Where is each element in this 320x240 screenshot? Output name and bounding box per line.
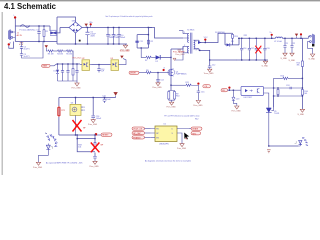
aux rail <box>57 63 81 65</box>
power port opto out arrow <box>120 56 123 59</box>
svg-text:TL431: TL431 <box>274 113 279 115</box>
transformer T1 <box>179 29 199 53</box>
cap lower <box>93 157 97 159</box>
svg-text:F1 slow 2A/250Vac: F1 slow 2A/250Vac <box>20 28 36 31</box>
svg-text:VOUT_OK: VOUT_OK <box>133 129 143 131</box>
svg-text:Prim_VCC: Prim_VCC <box>73 57 83 60</box>
wire DC- rail <box>57 43 127 45</box>
resistor snubber <box>147 40 149 44</box>
svg-text:10k: 10k <box>78 147 81 149</box>
svg-text:Trans_GND: Trans_GND <box>204 72 215 75</box>
svg-text:R8: R8 <box>146 70 148 72</box>
svg-text:BP_CAP: BP_CAP <box>133 132 141 135</box>
zener fb <box>232 90 239 106</box>
svg-text:RESET: RESET <box>102 135 109 137</box>
svg-text:Note: Y1 cap between pins 1-3: Note: Y1 cap between pins 1-3 should to … <box>106 15 153 18</box>
svg-text:S_GND: S_GND <box>281 58 288 60</box>
svg-text:Prim_GND: Prim_GND <box>88 123 98 126</box>
svg-text:450V: 450V <box>90 35 95 37</box>
red oval net label aux <box>42 64 57 68</box>
svg-text:Prim_GND: Prim_GND <box>33 166 43 169</box>
bridge rectifier DB1 <box>69 20 82 33</box>
svg-text:2: 2 <box>84 110 85 112</box>
resistor fb <box>283 77 288 79</box>
ground sense <box>167 102 177 108</box>
capacitor snubber <box>135 41 138 42</box>
opto U4 <box>241 86 264 98</box>
svg-text:R2: R2 <box>151 41 153 43</box>
capacitor mid opto <box>97 64 105 73</box>
wire secondary bottom <box>194 49 210 66</box>
ground sec snubber <box>208 69 212 72</box>
capacitor C10 <box>117 28 126 45</box>
ground Prim_GND below bulk <box>121 44 131 52</box>
bottom rail supervisor <box>59 134 96 136</box>
red oval pin2 <box>132 132 151 136</box>
svg-text:C12: C12 <box>212 64 215 66</box>
supervisor loop top <box>59 98 116 136</box>
red oval net label gate drive <box>129 71 139 75</box>
resistor R4 <box>58 50 63 52</box>
svg-text:BIAS: BIAS <box>43 65 48 68</box>
wire CS branch <box>171 84 186 86</box>
power port supervisor <box>115 96 117 98</box>
svg-text:Trans_GND: Trans_GND <box>120 49 131 52</box>
post filter caps <box>283 38 295 53</box>
common mode choke L1 <box>50 26 60 36</box>
svg-text:C23: C23 <box>236 99 239 101</box>
ground IC <box>177 144 187 151</box>
MOSFET Q1 <box>168 68 187 77</box>
svg-text:D2: D2 <box>156 61 158 63</box>
svg-text:Prim_GND: Prim_GND <box>167 105 177 108</box>
svg-text:Prim_GND: Prim_GND <box>72 87 82 90</box>
wire startup to aux rail <box>72 51 73 64</box>
ground J2 <box>309 54 316 60</box>
svg-text:As expected SMPS PWM TP is 280: As expected SMPS PWM TP is 280kHz - 30% <box>46 161 83 164</box>
svg-text:SRC: SRC <box>192 133 197 135</box>
svg-text:R5 1M: R5 1M <box>66 54 72 56</box>
cap supervisor mid <box>91 97 102 120</box>
primary winding lower <box>188 46 189 53</box>
wire secondary top <box>199 33 225 42</box>
lower loop <box>77 135 95 156</box>
wire bridge bottom <box>60 28 76 45</box>
port source <box>186 137 188 139</box>
output cap bank <box>240 38 270 60</box>
svg-text:Prim_GND: Prim_GND <box>90 165 100 168</box>
svg-text:Prim_GND: Prim_GND <box>176 53 186 56</box>
svg-text:Prim_GND: Prim_GND <box>177 147 187 150</box>
left page border line <box>1 12 4 175</box>
power port startup arrow <box>45 45 48 48</box>
wire <box>151 56 155 58</box>
resistor R7 <box>146 56 151 58</box>
ground fb <box>232 106 242 113</box>
connector J1 <box>9 30 16 41</box>
opto U4 right pins <box>264 88 303 107</box>
svg-text:As diagnostic schematic view l: As diagnostic schematic view leave the i… <box>145 159 191 162</box>
ground CS <box>193 100 203 106</box>
resistor R5 <box>67 50 72 52</box>
svg-text:ENABLE: ENABLE <box>133 136 141 139</box>
red oval net label CS <box>203 85 211 89</box>
ground output <box>262 60 269 68</box>
wire fb chain <box>228 89 241 91</box>
IC left pin wires <box>151 129 155 138</box>
svg-text:C24: C24 <box>286 85 289 87</box>
red X U6 <box>73 120 82 132</box>
output rail <box>238 37 309 39</box>
red oval source <box>191 132 201 136</box>
svg-text:C14: C14 <box>160 79 163 81</box>
wire bottom input rail <box>15 41 57 43</box>
junction dots DC rails <box>87 27 88 28</box>
svg-text:U4 PC817: U4 PC817 <box>244 97 253 99</box>
svg-text:Prim_CLAMP: Prim_CLAMP <box>173 50 185 53</box>
capacitor C7 <box>106 28 115 45</box>
ground divider <box>298 109 305 116</box>
resistor R CS <box>186 84 191 86</box>
svg-text:S_GND: S_GND <box>309 58 316 60</box>
svg-text:2n2/Y1: 2n2/Y1 <box>24 56 30 58</box>
core <box>191 33 192 54</box>
snubber clamp loop <box>137 27 149 49</box>
svg-text:2n2/Y1: 2n2/Y1 <box>24 48 30 50</box>
resistor DNP vertical <box>94 143 96 149</box>
wire connector drop <box>14 26 16 42</box>
Y-caps chain <box>20 42 43 59</box>
svg-text:100nF: 100nF <box>96 118 102 120</box>
svg-text:C16: C16 <box>243 48 246 50</box>
red oval net label lower <box>97 133 112 137</box>
inductor L2 on rail <box>274 37 282 43</box>
svg-text:L2 3.3uH: L2 3.3uH <box>274 41 282 43</box>
wire U6 bottom <box>75 115 77 135</box>
junction black <box>79 40 81 42</box>
svg-text:R14: R14 <box>281 76 284 78</box>
wire source <box>170 78 172 91</box>
ground lower <box>90 161 100 168</box>
opto U2 <box>80 58 92 70</box>
power port B+ arrow <box>85 24 88 27</box>
svg-text:R12: R12 <box>195 119 198 121</box>
svg-text:S_GND: S_GND <box>289 60 296 62</box>
port Vout con <box>295 34 298 37</box>
svg-text:R11: R11 <box>186 82 189 84</box>
output rectifier loop <box>225 33 239 46</box>
wire LED branch <box>269 145 299 147</box>
fuse F1 <box>20 25 36 32</box>
red oval drain <box>189 127 202 131</box>
svg-text:R1: R1 <box>46 31 48 33</box>
chassis earth symbol <box>19 43 23 45</box>
ground gate <box>153 83 163 89</box>
svg-text:S_GND: S_GND <box>262 66 269 68</box>
capacitor gate <box>156 73 163 83</box>
wire aux diode feed <box>141 48 146 57</box>
svg-text:9k1: 9k1 <box>304 93 307 95</box>
junction dots aux rail <box>57 63 58 64</box>
junction dots output rail <box>238 38 239 39</box>
cap pol supervisor <box>102 95 111 103</box>
svg-text:TP's on FET effective to aroun: TP's on FET effective to around 140V's c… <box>164 115 200 118</box>
svg-text:T1 EE25: T1 EE25 <box>187 29 194 31</box>
svg-text:C1: C1 <box>36 30 38 32</box>
capacitor C1 X2 <box>36 26 41 42</box>
resistor R discharge <box>43 26 48 42</box>
svg-text:AC IN: AC IN <box>17 34 23 37</box>
svg-text:4.1 Schematic: 4.1 Schematic <box>4 2 57 11</box>
IC right pin wires <box>177 129 189 144</box>
ground LED left <box>33 162 43 169</box>
resistor aux <box>72 64 74 81</box>
LED left D7 <box>39 133 58 162</box>
ground supervisor mid <box>88 120 98 126</box>
svg-text:U1: U1 <box>164 124 166 126</box>
wire sec return to output gnd <box>210 59 237 61</box>
capacitor C6 bulk <box>85 28 96 45</box>
svg-text:5: 5 <box>196 41 197 43</box>
svg-text:DRIVE: DRIVE <box>130 73 137 75</box>
wire DC+ rail <box>82 27 152 29</box>
feedback divider line <box>301 38 303 109</box>
diode D1 aux <box>54 64 60 81</box>
svg-text:S_GND: S_GND <box>298 114 305 116</box>
svg-text:R7: R7 <box>145 60 147 62</box>
red oval pin1 <box>132 127 151 131</box>
wire <box>9 42 14 49</box>
svg-text:R3 1M: R3 1M <box>48 54 54 56</box>
svg-text:C15: C15 <box>201 92 204 94</box>
TL431 U5 <box>266 96 279 146</box>
wire clamp L <box>175 54 184 61</box>
svg-text:4: 4 <box>197 49 198 51</box>
wire gate <box>151 72 169 74</box>
sense resistors <box>168 91 180 103</box>
wire <box>14 19 16 26</box>
pins left <box>183 34 189 53</box>
svg-text:1: 1 <box>84 107 85 109</box>
capacitor aux2 <box>66 64 69 81</box>
red sense resistor vertical <box>58 106 65 117</box>
wire gate chain <box>139 72 146 74</box>
capacitor aux1 <box>61 64 64 81</box>
wire bridge left loop <box>57 17 76 44</box>
resistor R8 <box>146 71 151 73</box>
red port square lower <box>95 133 97 135</box>
sheet background <box>0 0 320 175</box>
mouse cursor <box>184 132 190 139</box>
output gnd rail <box>237 59 269 61</box>
IC U6 yellow <box>70 103 85 116</box>
wire to drain node <box>160 56 171 58</box>
resistor R3 <box>48 50 53 52</box>
svg-text:D3 SB2100: D3 SB2100 <box>215 32 225 34</box>
IC U1 <box>155 124 177 146</box>
ground TL431 <box>267 150 271 153</box>
svg-text:DRAIN: DRAIN <box>192 128 199 131</box>
svg-text:DB1: DB1 <box>72 20 76 22</box>
pin wire top <box>179 31 183 34</box>
junction <box>38 25 39 26</box>
wire <box>53 50 57 52</box>
svg-text:Prim_GND: Prim_GND <box>153 86 163 89</box>
svg-text:Prim_GND: Prim_GND <box>193 104 203 107</box>
svg-text:D1: D1 <box>54 70 56 72</box>
primary winding upper <box>188 34 189 43</box>
svg-text:C17: C17 <box>251 48 254 50</box>
wire drain <box>171 46 183 68</box>
svg-text:RT1: RT1 <box>61 110 65 112</box>
pins right <box>194 40 199 49</box>
LED D6 <box>295 137 308 146</box>
resistor divider bottom <box>301 90 303 96</box>
feedback upper branch <box>288 77 302 79</box>
aux bottom bar + ground <box>58 81 82 90</box>
wire between optos <box>92 64 112 66</box>
svg-text:FQPF8N60C: FQPF8N60C <box>176 73 188 75</box>
red X lower <box>91 143 100 153</box>
wire top input rail <box>15 25 50 27</box>
svg-text:LNK304PN: LNK304PN <box>159 144 169 146</box>
svg-text:C21: C21 <box>285 43 288 45</box>
svg-text:D4: D4 <box>231 41 233 43</box>
connector J2 <box>308 34 315 54</box>
resistor divider top <box>301 61 303 67</box>
svg-text:C19: C19 <box>266 48 269 50</box>
diode D2 <box>156 55 161 63</box>
ground post caps <box>281 53 296 62</box>
ground Prim_CLAMP small parts left of transformer <box>176 46 186 56</box>
red oval pin3 <box>132 136 151 140</box>
capacitor aux3 <box>75 64 78 81</box>
diode D5 sec <box>198 41 201 44</box>
wire <box>191 85 198 91</box>
svg-text:R4 1M: R4 1M <box>57 54 63 56</box>
fb r network mid <box>274 85 303 97</box>
red X DNP cap <box>255 46 261 54</box>
svg-text:C11: C11 <box>140 41 143 43</box>
svg-text:R10: R10 <box>176 96 179 98</box>
svg-text:Prim_GND: Prim_GND <box>232 110 242 113</box>
svg-text:C22: C22 <box>292 43 295 45</box>
opto U3 <box>111 58 127 70</box>
svg-text:R13: R13 <box>234 36 237 38</box>
svg-text:39k: 39k <box>297 64 300 66</box>
wire rail to transformer <box>148 28 183 39</box>
secondary winding <box>194 40 195 49</box>
capacitor C8 <box>112 28 121 45</box>
wire <box>63 50 67 52</box>
top page border line <box>0 0 320 1</box>
red oval net label FB chain <box>221 87 230 93</box>
svg-text:100nF: 100nF <box>120 37 126 39</box>
capacitor sec snubber <box>208 66 212 68</box>
capacitor CS <box>197 91 205 100</box>
